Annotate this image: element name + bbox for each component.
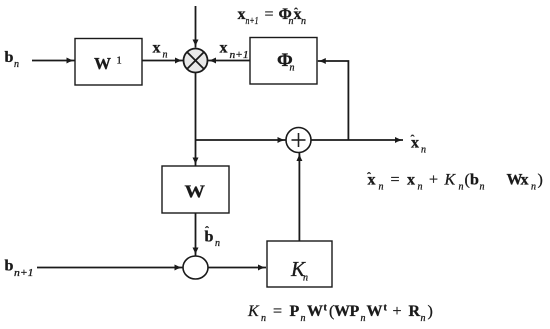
svg-text:n: n	[303, 273, 308, 284]
svg-text:W: W	[334, 303, 350, 320]
svg-text:n+1: n+1	[246, 16, 259, 27]
svg-text:n+1: n+1	[230, 50, 249, 61]
svg-text:ˆ: ˆ	[367, 170, 371, 184]
svg-text:n: n	[301, 16, 306, 27]
svg-text:=: =	[265, 6, 274, 23]
svg-text:b: b	[5, 258, 14, 275]
svg-text:ˆ: ˆ	[294, 5, 298, 19]
svg-text:n: n	[459, 182, 464, 193]
svg-text:=: =	[273, 303, 282, 320]
svg-text:n: n	[421, 313, 426, 324]
svg-text:x: x	[407, 172, 415, 189]
svg-text:K: K	[444, 172, 457, 189]
svg-text:W: W	[185, 182, 206, 202]
svg-text:W: W	[367, 303, 383, 320]
svg-text:W: W	[94, 54, 111, 73]
svg-text:ˆ: ˆ	[205, 224, 209, 238]
svg-text:n: n	[215, 238, 220, 249]
svg-text:n: n	[418, 182, 423, 193]
svg-text:n: n	[290, 63, 295, 74]
svg-text:W: W	[307, 303, 323, 320]
svg-text:x: x	[220, 40, 228, 57]
svg-text:n: n	[301, 313, 306, 324]
svg-text:n: n	[379, 182, 384, 193]
svg-text:): )	[428, 303, 433, 320]
svg-text:n: n	[261, 313, 266, 324]
svg-text:b: b	[5, 49, 14, 66]
svg-text:n: n	[361, 313, 366, 324]
svg-text:=: =	[391, 172, 400, 189]
svg-text:+: +	[429, 172, 438, 189]
svg-text:1: 1	[117, 56, 122, 67]
svg-text:+: +	[393, 303, 402, 320]
svg-text:n: n	[421, 145, 426, 156]
svg-text:b: b	[470, 172, 479, 189]
svg-text:P: P	[290, 303, 300, 320]
svg-text:P: P	[350, 303, 360, 320]
svg-text:x: x	[153, 40, 161, 57]
svg-text:n: n	[14, 59, 19, 70]
svg-text:x: x	[238, 6, 246, 23]
svg-text:x: x	[521, 172, 529, 189]
svg-text:n: n	[531, 182, 536, 193]
svg-text:ˆ: ˆ	[411, 132, 415, 146]
svg-text:): )	[538, 172, 543, 189]
svg-text:n: n	[480, 182, 485, 193]
svg-text:n: n	[163, 50, 168, 61]
svg-text:n+1: n+1	[14, 268, 34, 279]
svg-text:R: R	[409, 303, 421, 320]
svg-text:K: K	[247, 303, 260, 320]
